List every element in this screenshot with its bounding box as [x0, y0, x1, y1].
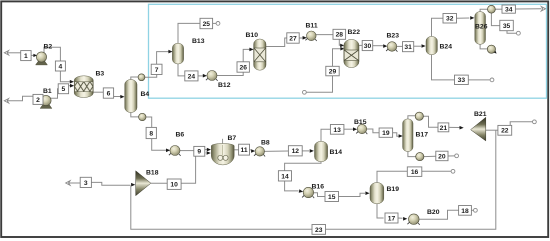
svg-text:24: 24 [188, 73, 196, 80]
arrowhead into pump B23 [383, 44, 387, 48]
stream box 6 [103, 88, 113, 98]
svg-text:25: 25 [203, 21, 211, 28]
wire stream 13 B14 top to box 13 [321, 129, 330, 141]
drum B24 [426, 36, 437, 54]
pump B15 [356, 124, 367, 134]
wire stream 6 box 6 to column B4 [114, 96, 121, 98]
svg-text:4: 4 [59, 63, 63, 70]
arrowhead into pump B20 [403, 217, 407, 221]
svg-text:B10: B10 [246, 32, 259, 39]
small arrow at B26 reboiler outlet [493, 50, 498, 55]
arrowhead stream 5 into B3 [70, 84, 74, 88]
svg-text:1: 1 [24, 53, 28, 60]
svg-text:32: 32 [446, 16, 454, 23]
pump B23 [386, 42, 397, 52]
wire stream 8 reboiler to box 8 [146, 117, 152, 127]
stream box 29 [326, 66, 339, 76]
stream box 32 [443, 14, 457, 24]
pump B8 [254, 147, 265, 157]
wire stream 16 B19 top to box 16 [377, 171, 407, 182]
pump B6 [169, 146, 181, 156]
svg-text:5: 5 [62, 86, 66, 93]
stream box 24 [185, 71, 198, 81]
wire stream 17 box 17 to pump B20 [398, 217, 403, 219]
stream box 23 [312, 225, 326, 235]
svg-text:16: 16 [411, 169, 419, 176]
svg-text:11: 11 [241, 147, 248, 154]
wire stream 5 pump B1 outlet to box 5 [50, 89, 58, 99]
wire stream 10 B18 outlet to box 10 [151, 182, 167, 184]
wire stream 4 pump B2 outlet to box 4 [44, 47, 60, 61]
wire stream 16 to open end [422, 170, 451, 172]
pump B16 [302, 187, 314, 198]
wire stream 21 condenser to box 21 [423, 116, 438, 127]
wire stream 25 to open end [213, 22, 217, 24]
arrowhead stream 19 into B17 [399, 134, 403, 138]
reactor B22 [344, 39, 359, 67]
svg-text:15: 15 [328, 194, 336, 201]
arrowhead stream 31 into B24 [422, 44, 426, 48]
stream box 33 [455, 75, 469, 84]
svg-text:B23: B23 [387, 33, 400, 40]
wire stream 2 feed to box 2 [6, 96, 33, 101]
pump B20 [407, 214, 419, 225]
condenser circle of B17 [415, 112, 423, 120]
wire B17 bottom to reboiler [408, 151, 416, 156]
wire stream 19 box 19 to column B17 [393, 133, 399, 136]
wire stream 26 pump B12 to box 26 [217, 72, 243, 75]
arrowhead stream 32 into B26 [470, 16, 474, 20]
stream box 7 [151, 64, 162, 74]
svg-text:B18: B18 [146, 170, 159, 177]
stream box 22 [498, 125, 512, 135]
reboiler circle of B26 [487, 45, 495, 53]
wire stream 2 box to pump B1 [43, 99, 45, 101]
wire recycle stream 23 [131, 130, 496, 229]
wire stream 31 box 31 to drum B24 [414, 45, 422, 47]
svg-text:26: 26 [239, 64, 247, 71]
wire stream 4 box 4 to reactor B3 [60, 71, 70, 82]
stream box 15 [325, 192, 339, 202]
svg-text:B19: B19 [387, 186, 400, 193]
wire stream 34 to right edge [515, 8, 541, 10]
wire stream 20 to open end [448, 155, 455, 157]
wire stream 27 box to pump B11 [299, 37, 302, 39]
wire stream 29 upper segment into B22 [333, 49, 341, 67]
column B17 [403, 119, 413, 152]
wire stream 24 box to pump B12 [198, 75, 203, 77]
svg-text:B12: B12 [218, 82, 231, 89]
stream box 20 [436, 151, 448, 161]
wire stream 11 box 11 to pump B8 [250, 149, 252, 151]
stream box 19 [379, 128, 393, 137]
svg-text:30: 30 [364, 43, 372, 50]
stream box 25 [200, 18, 213, 28]
svg-text:B1: B1 [43, 88, 52, 95]
compressor B21 [471, 117, 486, 141]
reboiler circle of B4 [139, 113, 146, 120]
condenser circle of B4 [138, 74, 145, 81]
wire stream 30 B22 to box 30 [359, 44, 362, 46]
wire stream 34 condenser to box 34 [495, 8, 502, 10]
wire stream 33 to open end [468, 79, 490, 81]
arrowhead into pump B12 [203, 74, 207, 78]
stream box 27 [287, 33, 299, 43]
pump B12 [206, 71, 218, 81]
open end stream 16 [451, 169, 455, 173]
svg-text:B11: B11 [306, 23, 318, 30]
stream box 14 [278, 171, 291, 181]
open arrow end of stream 34 [541, 7, 545, 12]
wire stream 20 reboiler to box 20 [424, 155, 436, 157]
svg-text:7: 7 [155, 67, 159, 74]
open end stream 29 [303, 90, 307, 94]
wire stream 7 box 7 to drum B13 [157, 52, 169, 65]
svg-text:27: 27 [289, 35, 297, 42]
svg-text:B17: B17 [416, 132, 429, 139]
wire stream 30 box 30 to pump B23 [373, 45, 384, 47]
svg-text:31: 31 [404, 44, 412, 51]
arrowhead into pump B2 [33, 54, 37, 57]
open end stream 22 [533, 120, 537, 124]
arrowhead streams into B18 [131, 183, 135, 187]
wire stream 22 box 22 to open end [510, 122, 532, 126]
pump B1 [40, 95, 52, 108]
svg-text:19: 19 [382, 130, 390, 137]
wire stream 22 B21 outlet to box 22 [486, 129, 498, 131]
wire stream 6 B3 to box 6 [93, 91, 103, 93]
svg-text:6: 6 [107, 90, 111, 97]
open feed arrow stream 1 [4, 51, 8, 56]
arrowhead into pump B16 [299, 189, 304, 193]
svg-text:21: 21 [440, 125, 448, 132]
arrowhead stream 9 into B7 [207, 148, 211, 152]
wire stream 15 pump B16 to box 15 [314, 193, 325, 197]
arrowhead into pump B8 [251, 149, 255, 153]
wire stream 32 B24 top to box 32 [432, 18, 444, 36]
open end stream 20 [455, 154, 459, 158]
svg-text:B16: B16 [312, 184, 325, 191]
open feed arrow stream 3 [66, 181, 70, 186]
svg-text:23: 23 [315, 227, 323, 234]
arrowhead stream 26 into B10 [249, 48, 253, 52]
arrowhead into pump B15 [353, 127, 357, 131]
wire stream 7 condenser to box 7 [145, 75, 157, 78]
drum B13 [172, 43, 183, 64]
stream box 9 [194, 146, 205, 156]
wire B17 top to condenser [408, 116, 415, 120]
svg-text:B14: B14 [330, 149, 343, 156]
svg-text:22: 22 [501, 128, 509, 135]
stream box 35 [500, 20, 514, 30]
svg-text:B7: B7 [228, 135, 237, 142]
stream box 21 [438, 123, 449, 132]
wire stream 18 to open end [471, 209, 473, 211]
stream box 17 [385, 213, 398, 223]
wire stream 31 pump B23 to box 31 [397, 45, 403, 47]
wire stream 24 B13 bottom to box 24 [178, 64, 185, 76]
arrowhead stream 6 into B4 [120, 95, 124, 99]
svg-text:29: 29 [329, 68, 337, 75]
svg-text:B3: B3 [96, 71, 105, 78]
wire stream 17 B19 bottom to box 17 [377, 204, 384, 218]
wire stream 10 box 10 to tank B7 [181, 153, 206, 183]
open end stream 18 [474, 208, 478, 212]
wire stream 3 feed to box 3 [68, 182, 80, 184]
wire B4 top to condenser [131, 77, 139, 80]
wire stream 14 box 14 to pump B16 [285, 181, 299, 191]
svg-text:10: 10 [170, 182, 178, 189]
arrowhead stream 21 into B21 [460, 126, 464, 130]
svg-text:B26: B26 [475, 24, 488, 31]
stream box 11 [239, 144, 250, 155]
svg-text:B2: B2 [44, 44, 53, 51]
svg-text:B13: B13 [192, 38, 205, 45]
wire stream 35 to open end [507, 31, 516, 34]
arrowhead stream 4 into B3 [70, 80, 74, 84]
stream box 30 [362, 41, 373, 51]
stream box 34 [502, 5, 515, 13]
svg-text:8: 8 [149, 130, 153, 137]
wire stream 12 box 12 to drum B14 [302, 150, 309, 152]
wire stream 1 feed to box [6, 52, 21, 54]
open feed arrow stream 2 [4, 99, 8, 104]
stream box 13 [330, 125, 344, 135]
wire stream 35 condenser to box 35 [491, 13, 499, 25]
wire stream 9 pump B6 to box 9 [180, 150, 194, 152]
svg-text:B20: B20 [427, 209, 440, 216]
tank B7 [211, 144, 234, 165]
stream box 31 [403, 42, 414, 52]
open end stream 25 [216, 22, 220, 26]
stream box 12 [288, 146, 302, 156]
stream box 5 [58, 84, 68, 94]
compressor B18 [136, 171, 151, 196]
svg-text:B6: B6 [176, 132, 185, 139]
wire B26 top to condenser [480, 9, 487, 12]
cyan section rectangle [149, 4, 547, 98]
pump B11 [305, 31, 316, 41]
wire stream 19 pump B15 to box 19 [367, 129, 379, 133]
svg-text:9: 9 [197, 149, 201, 156]
svg-text:B8: B8 [261, 140, 270, 147]
svg-text:35: 35 [503, 23, 511, 30]
arrowhead stream 15 into B19 [365, 191, 369, 195]
pump B2 [36, 52, 48, 65]
stream box 2 [33, 94, 43, 104]
wire stream 32 box 32 to column B26 [457, 17, 470, 19]
arrowhead stream 10 into B7 [207, 151, 211, 155]
svg-text:17: 17 [388, 215, 396, 222]
svg-text:B4: B4 [141, 91, 150, 98]
svg-text:B22: B22 [348, 29, 361, 36]
wire stream 15 box 15 to drum B19 [339, 193, 366, 196]
stream box 18 [459, 206, 472, 216]
wire stream 8 box 8 to pump B6 [152, 139, 167, 151]
stream box 26 [237, 62, 249, 72]
condenser circle of B26 [488, 5, 496, 13]
svg-text:33: 33 [458, 77, 466, 84]
wire stream 13 box 13 to pump B15 [344, 128, 353, 130]
wire stream 25 B13 top to box 25 [178, 23, 200, 43]
wire B26 bottom to reboiler [480, 44, 487, 49]
svg-text:28: 28 [336, 32, 344, 39]
tank B7 agitator shaft stub [222, 139, 224, 144]
wire stream 3 box 3 to compressor B18 [91, 182, 130, 185]
stream box 1 [21, 51, 31, 61]
wire B4 bottom to reboiler [131, 112, 139, 117]
wire stream 28 pump B11 to box 28 [316, 34, 333, 36]
reactor B3 [74, 76, 93, 98]
svg-text:B21: B21 [474, 111, 487, 118]
svg-text:B15: B15 [354, 119, 367, 126]
wire stream 5 box 5 to reactor B3 [69, 85, 71, 87]
wire stream 12 pump B8 to box 12 [264, 150, 288, 152]
arrowhead stream 28 into B22 [340, 44, 344, 48]
stream box 28 [333, 29, 346, 39]
wire stream 14 B14 bottom to box 14 [285, 162, 321, 171]
stream box 8 [146, 127, 156, 138]
svg-text:3: 3 [84, 180, 88, 187]
svg-text:14: 14 [281, 173, 289, 180]
arrowhead into pump B6 [166, 149, 170, 153]
column B26 [475, 12, 486, 45]
svg-text:20: 20 [438, 153, 446, 160]
svg-text:12: 12 [292, 148, 300, 155]
wire stream 21 box 21 to compressor B21 [449, 126, 460, 128]
stream box 3 [80, 177, 91, 187]
reboiler circle of B17 [416, 153, 424, 161]
wire stream 1 box to pump B2 [31, 54, 33, 56]
stream box 4 [55, 61, 65, 71]
svg-text:B24: B24 [440, 44, 453, 51]
open end stream 35 [517, 31, 521, 35]
drum B19 [370, 183, 384, 204]
svg-text:34: 34 [505, 7, 513, 14]
column B4 [125, 80, 137, 113]
wire stream 9 box 9 to tank B7 [205, 149, 207, 151]
stream box 10 [167, 179, 181, 189]
wire stream 28 box 28 to reactor B22 [339, 39, 340, 45]
svg-text:13: 13 [333, 127, 341, 134]
reactor B10 [254, 39, 266, 70]
arrowhead stream 12 into B14 [310, 149, 314, 153]
wire stream 26 box 26 to reactor B10 [243, 49, 249, 61]
arrowhead stream 7 into B13 [168, 50, 172, 54]
svg-text:2: 2 [36, 97, 40, 104]
wire stream 29 lower segment [306, 76, 332, 93]
arrowhead stream 29 into B22 [340, 47, 344, 51]
wire stream 11 B7 to box 11 [234, 149, 238, 151]
wire stream 33 B24 bottom to box 33 [432, 55, 455, 80]
wire stream 18 pump B20 to box 18 [419, 210, 458, 219]
wire stream 27 B10 to box 27 [266, 38, 287, 47]
drum B14 [315, 141, 328, 161]
arrowhead into pump B11 [303, 36, 307, 40]
open end stream 33 [490, 78, 494, 82]
svg-text:18: 18 [461, 208, 469, 215]
stream box 16 [407, 167, 422, 177]
